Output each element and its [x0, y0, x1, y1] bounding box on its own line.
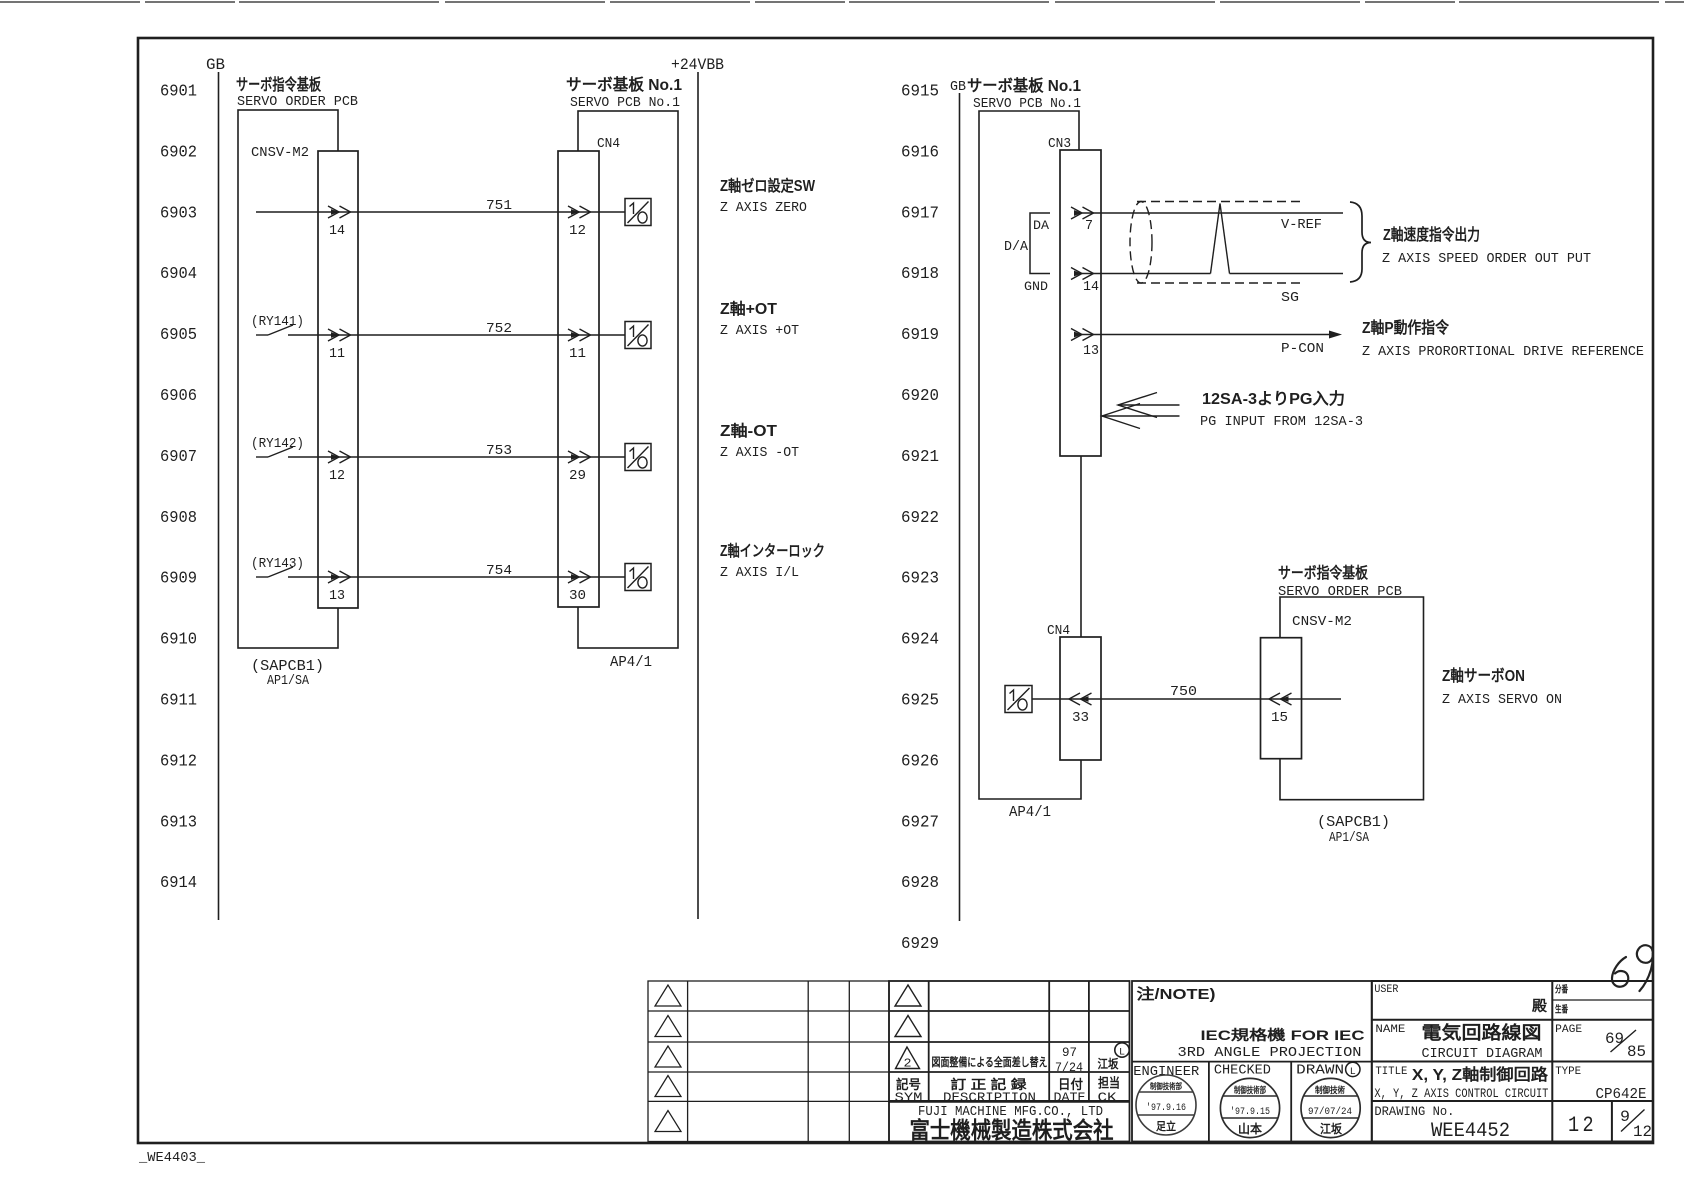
svg-text:15: 15 [1271, 710, 1288, 726]
svg-text:Z軸-OT: Z軸-OT [720, 421, 778, 440]
title block USER cell [1374, 984, 1547, 1015]
svg-text:Z AXIS -OT: Z AXIS -OT [720, 445, 799, 461]
svg-text:Z軸インターロック: Z軸インターロック [720, 541, 825, 560]
svg-text:SG: SG [1281, 290, 1299, 306]
title block TITLE cell [1374, 1065, 1549, 1101]
stamp DRAWN [1301, 1078, 1360, 1137]
svg-text:6901: 6901 [160, 83, 197, 102]
revision table right sub-table [889, 981, 1130, 1142]
pin 14 on CN3 (SG) [1071, 268, 1099, 296]
svg-text:X, Y, Z軸制御回路: X, Y, Z軸制御回路 [1412, 1065, 1549, 1084]
svg-text:生番: 生番 [1555, 1004, 1568, 1016]
svg-text:6904: 6904 [160, 265, 197, 284]
svg-text:6923: 6923 [901, 570, 939, 589]
svg-text:+24VBB: +24VBB [671, 56, 724, 74]
wire P-CON with arrowhead [1082, 331, 1342, 339]
svg-text:'97.9.15: '97.9.15 [1230, 1106, 1270, 1118]
pin 12 on CNSV-M2 with arrows [328, 451, 351, 484]
wire V-REF from pin 7 [1082, 212, 1343, 214]
svg-text:サーボ基板 No.1: サーボ基板 No.1 [967, 76, 1081, 95]
svg-text:11: 11 [329, 346, 345, 362]
svg-text:6913: 6913 [160, 813, 197, 832]
svg-text:山本: 山本 [1238, 1121, 1262, 1136]
pin 33 on CN4 with arrows [1069, 693, 1092, 726]
svg-text:2: 2 [904, 1057, 912, 1071]
svg-text:注/NOTE): 注/NOTE) [1137, 985, 1216, 1003]
svg-text:14: 14 [329, 223, 345, 239]
svg-text:69: 69 [1605, 1030, 1624, 1048]
svg-text:6922: 6922 [901, 509, 939, 528]
circle L mark in revision table [1115, 1043, 1129, 1059]
I/O symbol wire 750 [1005, 686, 1032, 713]
svg-text:Z軸速度指令出力: Z軸速度指令出力 [1383, 225, 1480, 244]
pin 12 on CN4 with arrows [568, 206, 591, 239]
signature cells dividers [1209, 1062, 1291, 1142]
svg-text:6915: 6915 [901, 83, 939, 102]
svg-text:L: L [1119, 1048, 1125, 1059]
revision table left triangles [655, 985, 681, 1132]
svg-text:12: 12 [569, 223, 586, 239]
revision header cells SYM/DESCRIPTION/DATE/CK [895, 1076, 1121, 1106]
svg-text:(RY142): (RY142) [251, 437, 304, 452]
I/O symbol row 751 [625, 199, 651, 226]
svg-text:SERVO ORDER PCB: SERVO ORDER PCB [237, 94, 358, 110]
svg-text:GND: GND [1024, 279, 1048, 294]
svg-text:6908: 6908 [160, 509, 197, 528]
net GB (left) vertical bus wire [218, 72, 220, 920]
svg-text:WEE4452: WEE4452 [1431, 1120, 1510, 1143]
svg-text:6917: 6917 [901, 204, 939, 223]
svg-text:_WE4403_: _WE4403_ [138, 1150, 206, 1166]
net GB (right) vertical bus wire [959, 93, 961, 921]
svg-text:'97.9.16: '97.9.16 [1146, 1102, 1186, 1114]
svg-text:6912: 6912 [160, 752, 197, 771]
svg-text:図面整備による全面差し替え: 図面整備による全面差し替え [932, 1055, 1048, 1069]
svg-text:足立: 足立 [1156, 1119, 1176, 1133]
svg-text:USER: USER [1374, 984, 1398, 996]
svg-text:CNSV-M2: CNSV-M2 [251, 145, 309, 161]
scan artifact line at top edge [0, 1, 1684, 3]
connector CNSV-M2 (left) body [318, 151, 358, 608]
svg-text:6926: 6926 [901, 752, 939, 771]
connector CN3 body [1060, 150, 1101, 456]
svg-text:(SAPCB1): (SAPCB1) [251, 658, 324, 675]
svg-text:6906: 6906 [160, 387, 197, 406]
svg-text:Z AXIS SPEED ORDER OUT PUT: Z AXIS SPEED ORDER OUT PUT [1382, 251, 1591, 267]
svg-text:IEC規格機 FOR IEC: IEC規格機 FOR IEC [1201, 1027, 1365, 1043]
svg-text:Z軸P動作指令: Z軸P動作指令 [1362, 318, 1450, 337]
svg-text:DRAWN: DRAWN [1296, 1063, 1344, 1079]
svg-text:AP1/SA: AP1/SA [267, 674, 310, 689]
svg-text:AP4/1: AP4/1 [1009, 804, 1051, 821]
title block TYPE cell CP642E [1555, 1066, 1646, 1103]
connector CN4 (right) body [1060, 637, 1101, 760]
title block 9/12 cell [1620, 1108, 1652, 1141]
I/O symbol row 754 [625, 564, 651, 591]
svg-text:6914: 6914 [160, 874, 197, 893]
svg-text:7: 7 [1085, 218, 1093, 234]
stamp ENGINEER [1136, 1075, 1196, 1135]
wire 750 Z AXIS SERVO ON [1032, 698, 1341, 700]
pin 29 on CN4 with arrows [568, 451, 591, 484]
svg-text:6929: 6929 [901, 935, 939, 954]
svg-text:750: 750 [1170, 684, 1197, 700]
svg-text:12: 12 [329, 468, 345, 484]
svg-text:29: 29 [569, 468, 586, 484]
svg-text:サーボ指令基板: サーボ指令基板 [236, 75, 322, 94]
svg-text:制御技術部: 制御技術部 [1234, 1085, 1266, 1095]
svg-text:GB: GB [950, 79, 966, 95]
title block PAGE cell 69/85 [1555, 1024, 1646, 1061]
svg-text:TITLE: TITLE [1375, 1066, 1407, 1078]
svg-text:Z AXIS +OT: Z AXIS +OT [720, 323, 799, 339]
svg-text:AP4/1: AP4/1 [610, 654, 652, 671]
revision table left sub-table [648, 981, 889, 1142]
svg-text:サーボ指令基板: サーボ指令基板 [1278, 563, 1368, 582]
connector CN4 (left) body [558, 151, 599, 607]
pin 15 on CNSV-M2 with arrows [1269, 693, 1292, 726]
svg-text:SYM: SYM [895, 1090, 923, 1105]
svg-text:(SAPCB1): (SAPCB1) [1317, 814, 1390, 831]
svg-text:分番: 分番 [1555, 984, 1568, 996]
svg-text:CP642E: CP642E [1596, 1086, 1647, 1103]
svg-text:DRAWING No.: DRAWING No. [1374, 1105, 1454, 1119]
svg-text:Z軸サーボON: Z軸サーボON [1442, 666, 1525, 685]
svg-text:6928: 6928 [901, 874, 939, 893]
signature headers [1133, 1063, 1344, 1081]
svg-text:11: 11 [569, 346, 586, 362]
svg-text:CNSV-M2: CNSV-M2 [1292, 614, 1352, 630]
svg-text:6911: 6911 [160, 692, 197, 711]
svg-text:PAGE: PAGE [1555, 1024, 1582, 1036]
pin 13 on CN3 (P-CON) [1071, 329, 1099, 360]
svg-text:Z AXIS PRORORTIONAL DRIVE REFE: Z AXIS PRORORTIONAL DRIVE REFERENCE [1362, 344, 1644, 360]
svg-text:江坂: 江坂 [1098, 1056, 1120, 1071]
svg-text:CN4: CN4 [597, 136, 620, 152]
svg-text:AP1/SA: AP1/SA [1329, 831, 1370, 846]
svg-text:担当: 担当 [1098, 1076, 1120, 1091]
svg-text:D/A: D/A [1004, 239, 1029, 255]
svg-text:7/24: 7/24 [1055, 1060, 1083, 1075]
svg-text:CIRCUIT DIAGRAM: CIRCUIT DIAGRAM [1422, 1046, 1543, 1062]
svg-text:97/07/24: 97/07/24 [1308, 1106, 1352, 1118]
svg-text:751: 751 [486, 198, 512, 214]
brace for Z axis speed order output [1350, 202, 1371, 282]
right line-number column 6915-6929 [901, 83, 939, 955]
pin 7 on CN3 (V-REF) [1071, 207, 1094, 234]
wire SG from pin 14 with shield drain spike [1082, 204, 1343, 274]
svg-text:30: 30 [569, 588, 586, 604]
svg-text:NAME: NAME [1375, 1024, 1405, 1036]
connector CNSV-M2 (right) body [1261, 638, 1302, 759]
svg-text:L: L [1350, 1067, 1356, 1078]
svg-text:Z AXIS SERVO ON: Z AXIS SERVO ON [1442, 692, 1562, 708]
svg-text:752: 752 [486, 321, 512, 337]
pin 11 on CNSV-M2 with arrows [328, 329, 351, 362]
board AP4/1 outline (right) polyline [979, 111, 1081, 799]
handwritten page number 69 top right [1612, 945, 1653, 991]
D/A converter block [1004, 213, 1050, 294]
svg-text:6916: 6916 [901, 143, 939, 162]
svg-text:TYPE: TYPE [1555, 1066, 1581, 1078]
svg-text:14: 14 [1083, 279, 1099, 295]
svg-text:6909: 6909 [160, 570, 197, 589]
svg-text:12: 12 [1633, 1123, 1652, 1141]
svg-text:電気回路線図: 電気回路線図 [1422, 1022, 1542, 1043]
pin 14 on CNSV-M2 with arrows [328, 206, 351, 239]
svg-text:12: 12 [1568, 1113, 1597, 1138]
svg-text:CHECKED: CHECKED [1214, 1063, 1271, 1079]
svg-text:85: 85 [1627, 1043, 1646, 1061]
title block outline [1372, 981, 1653, 1142]
title block NAME cell [1375, 1022, 1542, 1062]
svg-text:(RY141): (RY141) [251, 315, 304, 330]
svg-text:6925: 6925 [901, 692, 939, 711]
wire 752 Z AXIS +OT signal row [256, 325, 625, 335]
svg-text:3RD ANGLE PROJECTION: 3RD ANGLE PROJECTION [1178, 1045, 1362, 1061]
svg-text:ENGINEER: ENGINEER [1133, 1064, 1200, 1080]
svg-text:SERVO PCB No.1: SERVO PCB No.1 [973, 96, 1081, 112]
title block DRAWING No. cell WEE4452 [1374, 1105, 1510, 1143]
I/O symbol row 753 [625, 444, 651, 471]
wire 754 Z AXIS I/L signal row [256, 567, 625, 577]
circle L mark next to DRAWN [1346, 1062, 1360, 1078]
pin 11 on CN4 with arrows [568, 329, 591, 362]
svg-text:6919: 6919 [901, 326, 939, 345]
svg-text:6903: 6903 [160, 204, 197, 223]
stamp CHECKED [1220, 1078, 1279, 1137]
svg-text:DA: DA [1033, 218, 1049, 233]
svg-text:サーボ基板 No.1: サーボ基板 No.1 [566, 75, 682, 94]
board AP1/SA outline (right) [1280, 597, 1424, 800]
svg-text:PG INPUT FROM 12SA-3: PG INPUT FROM 12SA-3 [1200, 414, 1363, 430]
svg-text:12SA-3よりPG入力: 12SA-3よりPG入力 [1202, 389, 1345, 408]
svg-text:6927: 6927 [901, 813, 939, 832]
svg-text:9: 9 [1620, 1108, 1630, 1126]
svg-text:753: 753 [486, 443, 512, 459]
svg-text:DATE: DATE [1054, 1090, 1086, 1105]
svg-text:13: 13 [1083, 343, 1099, 359]
revision symbol triangle 2 [896, 1047, 920, 1071]
svg-text:CK: CK [1098, 1090, 1117, 1105]
svg-text:6924: 6924 [901, 631, 939, 650]
board AP4/1 outline (left) [578, 111, 678, 648]
svg-text:6920: 6920 [901, 387, 939, 406]
svg-text:制御技術: 制御技術 [1315, 1085, 1345, 1095]
wire 751 Z AXIS ZERO signal row [256, 211, 625, 213]
I/O symbol row 752 [625, 322, 651, 349]
svg-text:DESCRIPTION: DESCRIPTION [943, 1090, 1036, 1105]
svg-text:6921: 6921 [901, 448, 939, 467]
svg-text:GB: GB [206, 56, 225, 74]
svg-text:SERVO PCB No.1: SERVO PCB No.1 [570, 95, 680, 111]
svg-text:制御技術部: 制御技術部 [1150, 1081, 1182, 1091]
svg-text:33: 33 [1072, 710, 1089, 726]
svg-text:6902: 6902 [160, 143, 197, 162]
revision table right triangles rows 1-2 [895, 985, 921, 1037]
PG input arrows from 12SA-3 [1102, 393, 1180, 429]
svg-text:X, Y, Z AXIS CONTROL CIRCUIT: X, Y, Z AXIS CONTROL CIRCUIT [1374, 1086, 1548, 1101]
svg-text:754: 754 [486, 563, 512, 579]
svg-text:V-REF: V-REF [1281, 217, 1322, 233]
note block outline [1132, 981, 1372, 1142]
pin 13 on CNSV-M2 with arrows [328, 571, 351, 604]
svg-text:Z AXIS ZERO: Z AXIS ZERO [720, 200, 807, 216]
pin 30 on CN4 with arrows [568, 571, 591, 604]
board AP1/SA outline (left) [238, 110, 338, 648]
net +24VBB vertical bus wire [697, 72, 699, 919]
svg-text:6910: 6910 [160, 631, 197, 650]
wire 753 Z AXIS -OT signal row [256, 447, 625, 457]
svg-text:6918: 6918 [901, 265, 939, 284]
svg-text:Z軸ゼロ設定SW: Z軸ゼロ設定SW [720, 176, 815, 195]
svg-text:(RY143): (RY143) [251, 557, 304, 572]
svg-text:Z軸+OT: Z軸+OT [720, 299, 778, 318]
svg-text:富士機械製造株式会社: 富士機械製造株式会社 [910, 1117, 1114, 1143]
svg-text:97: 97 [1062, 1045, 1077, 1060]
left line-number column 6901-6914 [160, 83, 197, 894]
title block 分番/生番 cells [1555, 984, 1568, 1016]
svg-text:殿: 殿 [1531, 998, 1548, 1015]
svg-text:13: 13 [329, 588, 345, 604]
svg-text:P-CON: P-CON [1281, 341, 1324, 357]
svg-text:江坂: 江坂 [1320, 1121, 1343, 1136]
svg-text:6905: 6905 [160, 326, 197, 345]
svg-text:6907: 6907 [160, 448, 197, 467]
cable shield dashed outline [1130, 202, 1301, 284]
svg-text:Z AXIS I/L: Z AXIS I/L [720, 565, 799, 581]
